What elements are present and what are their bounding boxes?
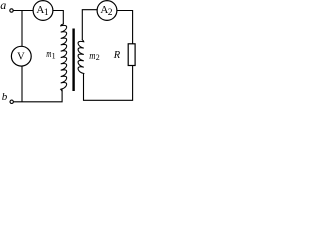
wire A2 to resistor [117,11,133,44]
svg-text:2: 2 [108,8,113,18]
svg-text:b: b [2,91,8,103]
wire a to A1 [13,10,33,12]
background [0,0,139,109]
wire voltmeter bottom branch [21,66,23,102]
wire voltmeter top branch [21,11,23,47]
transformer primary winding m1 [61,24,67,92]
terminal b [10,100,13,103]
terminal a [10,9,13,12]
ammeter A1 [33,1,53,21]
svg-text:2: 2 [96,53,100,62]
svg-text:R: R [113,50,121,61]
resistor R [128,44,135,66]
svg-text:a: a [0,0,6,12]
wire primary bottom to rail [14,90,63,102]
wire resistor bottom to secondary bottom [84,66,133,101]
transformer core [72,29,74,92]
svg-text:1: 1 [44,8,49,18]
svg-text:V: V [17,51,25,62]
transformer secondary winding m2 [78,40,84,76]
ammeter A2 [97,1,117,21]
wire A1 to primary top corner [53,11,63,25]
voltmeter V [11,46,31,66]
wire secondary top to A2 [82,10,97,40]
svg-text:1: 1 [52,51,56,60]
